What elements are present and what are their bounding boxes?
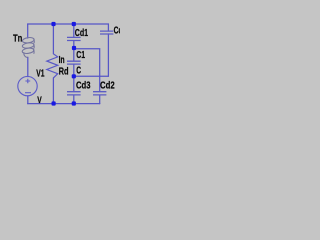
resistor Rd zigzag — [47, 54, 58, 78]
node dot bottom rail / Cd3 — [72, 101, 76, 105]
V1 minus sign — [25, 92, 31, 94]
wire capacitor C bottom to node — [73, 64, 75, 91]
svg-text:In: In — [59, 54, 65, 66]
wire horizontal net at y=76 — [74, 75, 109, 77]
wire Cd1 bottom to node at C1 tap — [73, 41, 75, 61]
node dot top rail / Cd1 — [72, 22, 76, 26]
capacitor C1/C plates — [67, 61, 81, 64]
wire top rail right corner down through top cap — [107, 24, 109, 31]
capacitor Cd1 plates — [67, 37, 81, 40]
inductor Tn (three loops) — [22, 37, 35, 58]
wire bottom rail — [28, 103, 100, 105]
wire node to right branch (C1 tap) — [74, 49, 100, 92]
svg-text:Cd3: Cd3 — [76, 79, 90, 90]
svg-text:C1: C1 — [76, 49, 85, 61]
node dot mid net — [72, 74, 76, 78]
wire top rail to resistor Rd — [52, 24, 54, 54]
wire capacitor Cd3 bottom to bottom rail — [73, 95, 75, 103]
voltage source V1 circle — [18, 76, 37, 95]
V1 plus sign — [25, 79, 30, 84]
svg-text:Cd2: Cd2 — [100, 79, 115, 90]
capacitor Cd4 (top right, clipped) plates — [100, 31, 113, 34]
svg-text:Rd: Rd — [59, 65, 69, 77]
node dot top rail / Rd — [51, 22, 55, 26]
svg-text:Cd4: Cd4 — [114, 24, 120, 36]
capacitor Cd2 plates — [93, 92, 106, 95]
svg-text:Tn: Tn — [13, 32, 22, 43]
wire coil bottom to V1 source top — [27, 57, 29, 76]
wire top rail to capacitor Cd1 — [73, 24, 75, 37]
wire V1 bottom to bottom rail — [27, 96, 29, 104]
node dot bottom rail / Rd — [52, 101, 56, 105]
wire capacitor Cd2 bottom to bottom rail corner — [99, 95, 101, 103]
wire top-right cap bottom down to y=76 net — [107, 34, 109, 76]
background — [0, 0, 120, 120]
svg-text:C: C — [76, 64, 81, 76]
svg-text:V1: V1 — [36, 67, 44, 79]
wire top-left drop to Tn coil — [27, 24, 29, 38]
capacitor Cd3 plates — [67, 92, 81, 95]
wire resistor Rd bottom to bottom rail — [52, 78, 54, 104]
svg-text:Cd1: Cd1 — [75, 27, 88, 39]
svg-text:V: V — [37, 95, 42, 105]
node dot C1 tap — [72, 46, 76, 50]
wire top rail — [28, 23, 109, 25]
